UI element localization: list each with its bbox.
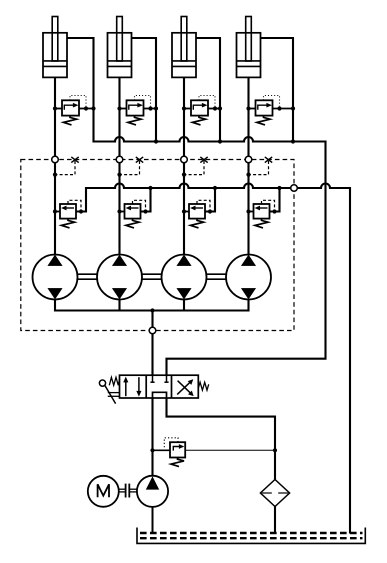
hydraulic motor M2 [97,255,142,300]
DV1 right position crossed arrows [177,380,193,396]
wire relief valve inlet stub [153,449,171,451]
hydraulic motor M3 [162,255,207,300]
motor control valve MV4 [249,204,270,228]
plugged test point X4 [265,157,272,163]
DV1 right spring [198,382,208,390]
directional valve DV1 body [120,375,199,398]
port circle node P4 (enclosure top, line 4) [245,156,252,163]
relief valve RV1 [170,442,185,466]
port circle node P2 (enclosure top, line 2) [116,156,123,163]
DV1 manual lever [99,380,119,404]
DV1 centre position blocked ports and bottom bridge [150,375,168,398]
shaft coupling between motors M1-M2 [78,274,98,279]
wire cap-line 4 (cylinder 4 bottom to motor 4 top) [247,77,249,255]
wire cap-line 1 (cylinder 1 bottom to motor 1 top) [54,77,56,255]
port circle node P3 (enclosure top, line 3) [181,156,188,163]
junction dots V4 [246,106,295,110]
pilot line V3 (dotted) [199,96,215,107]
wire rod-port line cylinder 1 + rod bus + right drop + feed to valve port B [67,38,326,375]
junction dots MV4 [246,209,276,213]
wire motor-valve 4 riser to bus [270,186,282,212]
port circle node P1 (enclosure top, line 1) [52,156,59,163]
pilot line MV3 (dashed) [197,200,210,209]
hydraulic motor M1 [33,255,78,300]
wire motor-valve 2 riser to bus [141,186,153,212]
wire rod-port line cylinder 2 [132,38,159,144]
hydraulic pump P1 [137,476,168,507]
junction dots MV2 [117,209,147,213]
wire tank return line (valve bottom-right port via filter to tank) [167,398,276,533]
wire motor-valve bus + return line to tank (right side) [76,184,350,534]
return filter F1 [260,480,289,507]
pilot line MV1 (dashed) [68,200,81,209]
wire motor-valve 3 riser to bus [205,186,217,212]
port circle node (enclosure bottom, pressure line) [149,327,156,334]
sequence valve V1 (below cylinder 1) [55,100,94,125]
pilot line MV4 (dashed) [262,200,275,209]
pilot line X2 (dashed) [117,161,139,177]
sequence valve V3 (below cylinder 3) [184,100,220,125]
dashed enclosure (motor manifold) [21,160,294,331]
sequence valve V2 (below cylinder 2) [120,100,157,125]
motor control valve MV3 [184,204,205,228]
sequence valve V4 (below cylinder 4) [249,100,294,125]
pilot line X4 (dashed) [246,161,268,177]
shaft coupling between motors M2-M3 [142,274,162,279]
plugged test point X3 [200,157,207,163]
cylinder CYL2 [108,17,132,78]
wire pump suction line to tank [152,507,154,534]
wire cap-line 3 (cylinder 3 bottom to motor 3 top) [183,77,185,255]
pilot line X1 (dashed) [53,161,75,177]
pilot line V4 (dotted) [264,96,280,107]
cylinder CYL3 [172,17,196,78]
plugged test point X2 [136,157,143,163]
pilot line RV1 (dotted) [164,438,178,449]
electric motor M [88,476,119,507]
hydraulic motor M4 [226,255,271,300]
DV1 left spring [109,377,119,385]
DV1 left position arrows [124,377,141,396]
pilot line V1 (dotted) [70,96,86,107]
cylinder CYL4 [237,17,261,78]
tank / reservoir [137,528,365,544]
motor control valve MV2 [120,204,141,228]
cylinder CYL1 [43,17,67,78]
shaft coupling between motors M3-M4 [207,274,227,279]
wire motor drain bus [55,299,249,313]
wire rod-port line cylinder 4 [261,38,296,144]
wire relief valve outlet (thin) to filter line [185,448,277,452]
junction dots V1 [53,106,96,110]
shaft coupling M-pump [118,484,137,498]
junction dots MV1 [53,209,83,213]
junction dots MV3 [182,209,212,213]
plugged test point X1 [71,157,78,163]
pilot line V2 (dotted) [135,96,151,107]
motor control valve MV1 [55,204,76,228]
wire pressure line (drain bus to directional valve top-left port) [151,311,153,376]
junction dots V2 [117,106,158,110]
pilot line MV2 (dashed) [133,200,146,209]
port circle node (enclosure right, bus outlet) [291,185,298,192]
wire rod-port line cylinder 3 [196,38,222,144]
wire pump pressure line (valve bottom-left port to pump) [150,398,154,476]
wire cap-line 2 (cylinder 2 bottom to motor 2 top) [118,77,120,255]
pilot line X3 (dashed) [182,161,204,177]
junction dots V3 [182,106,222,110]
